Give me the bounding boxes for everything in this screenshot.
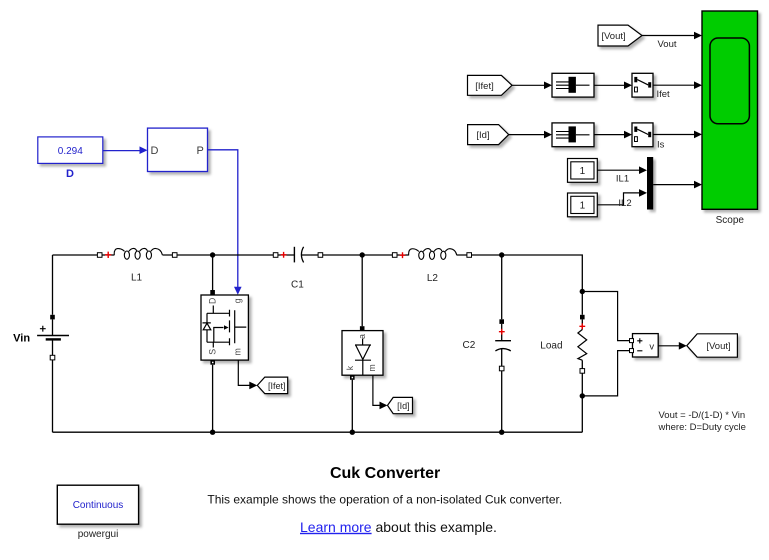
svg-text:D: D: [208, 298, 218, 304]
svg-text:IL1: IL1: [616, 174, 629, 185]
node B (rail-diode junction): [360, 252, 365, 257]
Goto tag [Vout]: [687, 334, 738, 357]
svg-text:Scope: Scope: [716, 215, 745, 226]
svg-text:powergui: powergui: [78, 529, 119, 540]
constant block 1 (IL2): [568, 193, 598, 217]
svg-text:Continuous: Continuous: [73, 500, 124, 511]
svg-text:where: D=Duty cycle: where: D=Duty cycle: [658, 422, 746, 433]
node A (rail-mosfet junction): [210, 252, 215, 257]
svg-text:[Ifet]: [Ifet]: [268, 381, 286, 391]
svg-text:C2: C2: [463, 340, 476, 351]
Goto tag [Id]: [388, 397, 413, 413]
wire D to PWM: [103, 150, 140, 152]
node E (diode-bottom rail junction): [350, 430, 355, 435]
svg-text:Vin: Vin: [13, 333, 30, 345]
svg-text:[Vout]: [Vout]: [706, 341, 730, 352]
svg-text:Load: Load: [540, 341, 562, 352]
svg-text:[Id]: [Id]: [397, 401, 410, 411]
svg-text:​Learn more about this example: ​Learn more about this example.: [300, 519, 497, 535]
node D (mosfet-bottom rail junction): [210, 430, 215, 435]
svg-text:Ifet: Ifet: [657, 89, 671, 100]
powergui block: [57, 485, 138, 524]
node H (load bottom junction): [580, 393, 585, 398]
manual switch SW1: [632, 73, 653, 97]
svg-text:Cuk Converter: Cuk Converter: [330, 465, 440, 482]
From tag [Id]: [468, 125, 509, 145]
svg-text:D: D: [151, 145, 159, 157]
svg-text:D: D: [66, 168, 74, 180]
MOSFET block Q1: [201, 295, 248, 360]
wire IL1 to mux: [597, 169, 640, 171]
From tag [Ifet]: [468, 75, 513, 95]
filter block F2: [552, 123, 594, 147]
svg-text:[Id]: [Id]: [476, 130, 489, 141]
wire Id to filter2: [509, 134, 545, 136]
inductor L2: [392, 253, 397, 258]
inductor L1: [97, 253, 102, 258]
node F (C2-bottom rail junction): [499, 430, 504, 435]
svg-text:1: 1: [580, 166, 586, 177]
svg-text:C1: C1: [291, 279, 304, 290]
node G (load top junction): [580, 289, 585, 294]
wire diode m to goto: [373, 375, 381, 405]
wire switch2 to scope: [653, 134, 695, 136]
svg-text:L1: L1: [131, 272, 143, 283]
svg-text:v: v: [649, 342, 654, 353]
wire VM to goto Vout: [658, 345, 680, 347]
scope block: [702, 11, 758, 209]
svg-text:S: S: [208, 349, 218, 355]
svg-text:m: m: [367, 364, 377, 371]
wire mosfet m to goto: [238, 360, 250, 385]
wire mosfet column: [212, 255, 214, 432]
wire top rail: [53, 255, 583, 292]
svg-text:a: a: [357, 334, 367, 339]
capacitor C2: [501, 255, 503, 432]
constant block 1 (IL1): [568, 159, 598, 183]
constant block D (0.294): [38, 137, 103, 164]
wire Vout to scope: [642, 35, 695, 37]
manual switch SW2: [632, 123, 653, 147]
mux M1: [647, 157, 653, 210]
svg-text:[Ifet]: [Ifet]: [475, 81, 493, 92]
wire diode column: [352, 255, 362, 432]
svg-text:Vout = -D/(1-D) * Vin: Vout = -D/(1-D) * Vin: [659, 410, 746, 421]
PWM generator block U1 (D-P): [148, 128, 208, 171]
filter block F1: [552, 73, 594, 97]
wire bottom rail: [53, 431, 583, 433]
diode block D1: [342, 331, 383, 376]
svg-text:[Vout]: [Vout]: [601, 31, 625, 42]
wire mux to scope: [653, 184, 695, 186]
wire IL2 to mux: [597, 193, 640, 205]
From tag [Vout]: [598, 25, 642, 46]
wire P to MOSFET gate: [208, 150, 238, 287]
wire VM minus: [582, 351, 629, 396]
svg-text:k: k: [345, 365, 355, 370]
svg-text:P: P: [196, 145, 203, 157]
svg-text:0.294: 0.294: [58, 146, 83, 157]
wire filter to switch1: [594, 84, 625, 86]
node C (rail-C2 junction): [499, 252, 504, 257]
svg-text:Vout: Vout: [658, 39, 677, 50]
wire Ifet to filter: [512, 84, 545, 86]
resistor Load: [581, 292, 583, 433]
svg-text:m: m: [233, 348, 243, 355]
wire filter2 to switch2: [594, 134, 625, 136]
Goto tag [Ifet]: [257, 377, 287, 394]
capacitor C1: [273, 253, 278, 258]
svg-text:Is: Is: [657, 140, 665, 151]
svg-text:This example shows the operati: This example shows the operation of a no…: [207, 492, 562, 506]
svg-text:g: g: [233, 298, 243, 303]
wire VM plus: [582, 292, 629, 341]
svg-text:IL2: IL2: [618, 198, 631, 209]
voltage measurement VM: [633, 334, 659, 357]
svg-text:1: 1: [580, 201, 586, 212]
svg-text:L2: L2: [427, 273, 439, 284]
DC source Vin: [52, 255, 54, 432]
wire switch1 to scope: [653, 84, 695, 86]
